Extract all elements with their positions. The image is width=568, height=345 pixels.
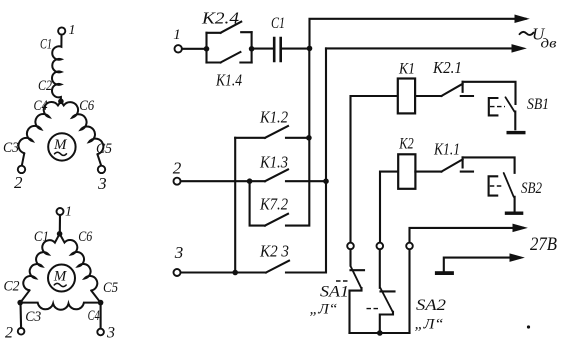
svg-text:M: M [53, 269, 68, 285]
wire winding to terminal 3 (star) [97, 154, 101, 166]
button SB1 lower lead [514, 112, 516, 130]
node 3 terminal (delta) [97, 329, 104, 336]
svg-text:3: 3 [106, 325, 115, 342]
node: phase 3 input terminal [174, 269, 181, 276]
wire vertex-terminal2 (delta) [19, 303, 22, 329]
node: SA1 plug contact [347, 243, 354, 250]
winding C3-C4 (delta bottom) [20, 303, 100, 310]
node: rail junction [377, 330, 383, 336]
wire SA2 upper lead [379, 249, 381, 287]
motor M2 tilde [54, 283, 66, 286]
svg-text:C1: C1 [40, 37, 52, 53]
wire K1 coil right [415, 95, 441, 97]
motor M2 circle (delta) [48, 265, 75, 292]
svg-text:дв: дв [541, 37, 557, 52]
node: SA2 plug contact [377, 243, 384, 250]
ground SB2 [505, 212, 524, 215]
button SB2 link [490, 185, 503, 187]
switch SA1 link [336, 280, 348, 282]
svg-text:1: 1 [65, 205, 72, 220]
wire contact box right vertical [251, 32, 253, 62]
arrow 27V [513, 224, 526, 231]
svg-text:„Л“: „Л“ [310, 302, 338, 318]
svg-text:3: 3 [97, 174, 107, 193]
winding C6-C5 (delta right side) [60, 234, 98, 291]
ink speck right [527, 325, 530, 328]
contact K1.2 (NO) [235, 126, 309, 138]
node: phase2 branch junction [247, 178, 253, 184]
node: star center junction [58, 99, 64, 105]
wire K2 coil right [415, 171, 441, 173]
svg-text:1: 1 [69, 23, 76, 38]
node 2 terminal (delta) [18, 328, 25, 335]
svg-text:C2: C2 [4, 279, 20, 295]
relay coil K1 [398, 79, 415, 114]
svg-text:C3: C3 [25, 309, 41, 325]
contact K2.1 (NO) [441, 82, 473, 96]
motor M1 tilde [55, 152, 67, 155]
wire SA1 lower lead [350, 288, 362, 333]
switch SA2 fixed stub [381, 290, 395, 292]
switch SA1 lever [350, 266, 361, 289]
node 3 terminal (star) [98, 166, 105, 173]
wire vertical C (K1.2/K2.3 tie) [234, 138, 236, 273]
node 1 terminal (delta) [57, 208, 64, 215]
switch SA2 link [367, 308, 379, 310]
svg-text:C2: C2 [38, 78, 52, 94]
wire winding to vertex C2 (delta) [21, 290, 30, 302]
svg-text:K7.2: K7.2 [259, 195, 288, 214]
svg-text:C1: C1 [34, 229, 49, 245]
capacitor C1 [274, 38, 281, 61]
svg-text:K1.2: K1.2 [259, 108, 288, 127]
button SB2 lower lead [514, 197, 516, 212]
arrow second supply [512, 45, 525, 52]
node 2 terminal (star) [18, 166, 25, 173]
wire 27V plug vertical [408, 249, 410, 333]
node: contact box right junction [249, 46, 255, 52]
button SB1 lever [506, 97, 515, 111]
winding C1-C2 (star, vertical) [52, 35, 62, 100]
svg-text:K1.1: K1.1 [433, 140, 460, 159]
wire SA2 lower lead [380, 312, 393, 333]
wire vertical D (to K7.2) [250, 181, 265, 225]
wire bus A vertical [286, 48, 309, 225]
relay coil K2 [398, 154, 415, 189]
svg-text:SA2: SA2 [416, 297, 446, 314]
svg-text:C5: C5 [103, 280, 118, 296]
motor M1 circle (star) [48, 133, 75, 160]
winding C4-C3 (star left) [19, 101, 61, 153]
wire K1.1 to SB2 [463, 157, 515, 172]
wire bus B vertical [286, 48, 326, 272]
svg-text:K1: K1 [398, 61, 415, 78]
svg-text:C6: C6 [78, 229, 92, 245]
svg-text:K2: K2 [398, 136, 413, 153]
svg-text:3: 3 [174, 243, 184, 262]
contact K2.4 (NO) [207, 22, 252, 33]
wire phase2 line [181, 180, 265, 182]
wire 27V feed [410, 228, 524, 243]
contact K1.4 (NO) [207, 52, 252, 63]
contact K7.2 (NO) [265, 214, 288, 226]
node: delta bottom-left vertex [17, 300, 23, 306]
svg-text:C3: C3 [3, 140, 19, 156]
wire K2 coil left [380, 172, 398, 243]
svg-text:1: 1 [173, 27, 181, 43]
wire K2.1 to SB1 [463, 82, 516, 104]
wire winding to vertex C5 (delta) [91, 291, 100, 303]
contact K1.3 (NO) [265, 169, 326, 181]
node: 27V plug contact [406, 243, 413, 250]
node: phase 2 input terminal [174, 178, 181, 185]
wire phase1 to contact box [182, 48, 207, 50]
wire terminal1-vertex (delta) [59, 215, 61, 233]
contact K2.3 (NO) [266, 261, 289, 273]
node 1 terminal (star) [58, 27, 65, 34]
svg-text:C4: C4 [88, 308, 100, 324]
wire second supply bus [326, 47, 521, 49]
svg-text:SB2: SB2 [521, 180, 542, 197]
svg-text:2: 2 [173, 159, 182, 178]
svg-text:SB1: SB1 [527, 96, 549, 113]
node: delta bottom-right vertex [98, 300, 104, 306]
wire SA1 upper lead [349, 249, 351, 265]
svg-text:2: 2 [5, 325, 13, 342]
svg-text:C5: C5 [96, 141, 112, 157]
node: contact box left junction [204, 46, 210, 52]
svg-text:K1.3: K1.3 [259, 153, 288, 172]
wire winding to terminal 2 (star) [22, 153, 25, 166]
wire capacitor to node X [282, 48, 310, 50]
ground SB1 [507, 131, 526, 134]
svg-text:K2.1: K2.1 [432, 58, 462, 77]
svg-text:2: 2 [14, 173, 23, 192]
switch SA1 fixed stub [351, 269, 365, 271]
node X junction [307, 46, 313, 52]
button SB1 link [490, 106, 505, 108]
arrow top supply [515, 15, 528, 22]
winding C6-C5 (star right) [61, 101, 103, 154]
wire contact box left vertical [205, 33, 207, 63]
node: phase3 tie junction [232, 270, 238, 276]
wire bottom common rail [350, 332, 410, 334]
arrow 27V return [510, 254, 523, 261]
svg-text:C1: C1 [271, 15, 285, 32]
svg-text:C6: C6 [79, 98, 94, 114]
wire 27V return [444, 258, 520, 271]
button SB2 lever [504, 173, 514, 197]
svg-text:„Л“: „Л“ [415, 317, 444, 333]
button SB2 actuator [489, 176, 498, 195]
switch SA2 lever [380, 288, 393, 313]
wire to capacitor C1 [252, 48, 273, 50]
wire vertex-terminal3 (delta) [100, 303, 102, 329]
node: K1.3 to bus B junction [323, 178, 329, 184]
svg-text:27В: 27В [530, 234, 557, 255]
svg-text:M: M [53, 137, 68, 153]
button SB1 actuator [489, 98, 498, 115]
wire top supply bus [310, 19, 526, 49]
wire K1 coil left [351, 96, 398, 243]
wire phase3 line [181, 271, 266, 273]
label ~U dv tilde [520, 32, 534, 35]
node: phase 1 input terminal [175, 45, 182, 52]
winding C1-C2 (delta left side) [23, 234, 59, 290]
svg-text:K2 3: K2 3 [259, 242, 289, 261]
contact K1.1 (NO) [441, 157, 473, 171]
svg-text:K1.4: K1.4 [215, 71, 242, 90]
node: K1.2 to bus A junction [306, 135, 312, 141]
ground 27V return [435, 271, 454, 275]
node: delta top vertex [57, 231, 63, 237]
svg-text:SA1: SA1 [320, 284, 349, 301]
